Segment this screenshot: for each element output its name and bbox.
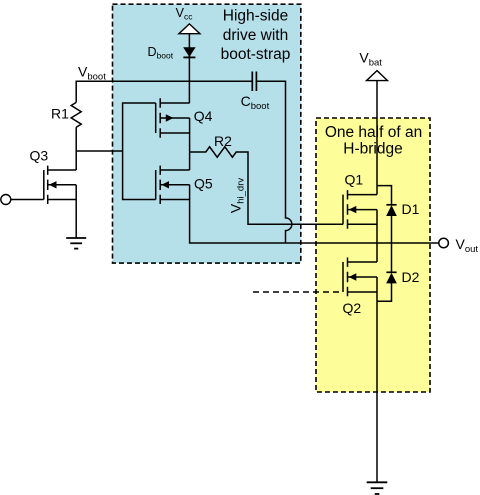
svg-text:R2: R2 [214,133,232,149]
svg-text:Q4: Q4 [194,108,213,124]
svg-text:Q1: Q1 [345,171,364,187]
svg-text:Q5: Q5 [194,176,213,192]
svg-text:Q2: Q2 [343,300,362,316]
svg-text:D2: D2 [402,269,420,285]
svg-text:Q3: Q3 [30,148,49,164]
svg-text:R1: R1 [51,106,69,122]
svg-text:D1: D1 [402,201,420,217]
svg-text:One half of an: One half of an [325,124,422,141]
svg-text:drive with: drive with [223,27,288,44]
svg-text:boot-strap: boot-strap [221,46,291,63]
svg-text:H-bridge: H-bridge [343,140,402,157]
svg-text:High-side: High-side [223,7,288,24]
